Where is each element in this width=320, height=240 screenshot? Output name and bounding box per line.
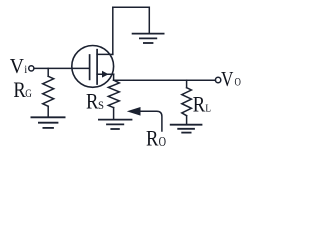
label Ro <box>146 125 166 150</box>
channel bar <box>96 50 98 84</box>
wire junction to RL <box>186 80 188 88</box>
svg-text:R: R <box>193 92 206 117</box>
svg-text:G: G <box>25 86 32 100</box>
svg-text:O: O <box>235 76 241 88</box>
gate bar <box>89 55 91 79</box>
label RS <box>86 88 104 113</box>
output wire <box>114 79 216 81</box>
label Vo <box>221 67 241 91</box>
source lead down to node <box>113 74 115 80</box>
source arrow <box>102 71 109 78</box>
output terminal Vo <box>215 77 220 82</box>
drain tap <box>97 53 113 55</box>
ground (RL) <box>171 125 202 133</box>
ground (top right) <box>133 34 164 43</box>
svg-text:R: R <box>13 77 26 102</box>
svg-text:V: V <box>10 54 25 78</box>
drain lead up <box>112 7 114 54</box>
svg-text:R: R <box>146 125 159 150</box>
wire junction to RG <box>47 68 49 76</box>
input terminal Vi <box>29 66 34 71</box>
svg-text:V: V <box>221 67 234 91</box>
ground (RG) <box>31 117 64 128</box>
svg-text:i: i <box>24 64 27 76</box>
resistor RL <box>182 88 192 116</box>
svg-text:O: O <box>159 134 167 149</box>
source tap <box>97 73 114 75</box>
transistor Q1 (MOSFET, circle) <box>72 46 114 88</box>
resistor RG <box>43 76 54 106</box>
svg-text:S: S <box>98 98 104 112</box>
wire RS to ground <box>113 108 115 119</box>
wire RL to ground <box>186 116 188 124</box>
resistor RS <box>108 80 119 107</box>
top wire to ground <box>113 7 150 32</box>
Ro arrowhead <box>127 107 141 116</box>
svg-text:R: R <box>86 88 99 113</box>
svg-text:L: L <box>205 103 211 115</box>
label RG <box>13 77 32 102</box>
wire input to gate <box>34 67 89 69</box>
Ro pointer arrow (curved) <box>140 111 162 131</box>
label RL <box>193 92 212 117</box>
label Vi <box>10 54 28 78</box>
ground (RS) <box>99 120 132 129</box>
wire RG to ground <box>47 106 49 116</box>
